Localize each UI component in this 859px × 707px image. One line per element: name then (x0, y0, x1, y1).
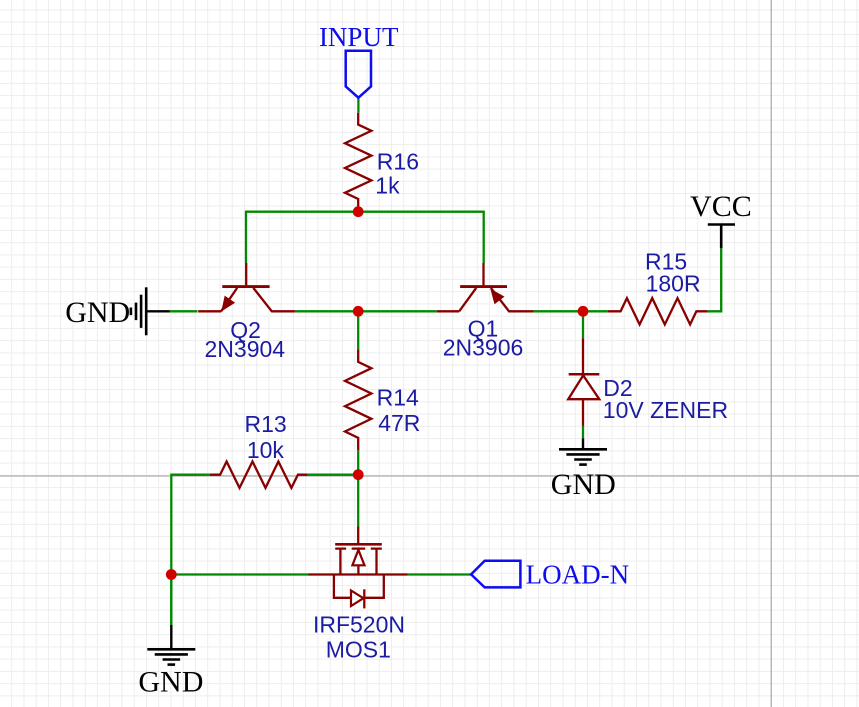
resistor R13 (210, 462, 308, 488)
wire (171, 475, 210, 625)
svg-text:2N3906: 2N3906 (443, 334, 524, 360)
svg-text:VCC: VCC (690, 190, 752, 223)
svg-text:LOAD-N: LOAD-N (526, 560, 629, 590)
wire (483, 211, 485, 263)
wire (582, 426, 584, 438)
resistor R15 (608, 298, 708, 324)
wire (171, 573, 308, 575)
svg-text:R16: R16 (377, 149, 419, 175)
svg-text:GND: GND (551, 468, 616, 501)
svg-text:GND: GND (65, 296, 130, 329)
svg-text:MOS1: MOS1 (326, 637, 391, 663)
svg-text:180R: 180R (646, 271, 701, 297)
svg-text:IRF520N: IRF520N (313, 612, 405, 638)
svg-text:R13: R13 (244, 411, 286, 437)
svg-text:R14: R14 (377, 385, 419, 411)
resistor R14 (345, 349, 371, 450)
wire (246, 211, 484, 213)
wire (170, 575, 172, 626)
port INPUT (346, 51, 371, 98)
node junction (353, 206, 364, 217)
port LOAD-N (471, 561, 520, 588)
ground (146, 310, 170, 312)
wire (295, 310, 437, 312)
node junction (166, 569, 177, 580)
wire (357, 450, 359, 475)
node junction (578, 306, 589, 317)
transistor Q2 (245, 263, 247, 285)
svg-text:47R: 47R (378, 410, 420, 436)
wire (408, 573, 472, 575)
wire (708, 248, 722, 311)
transistor MOS1 IRF520N (357, 527, 359, 544)
svg-text:10k: 10k (247, 437, 285, 463)
wire (534, 310, 608, 312)
svg-text:1k: 1k (375, 173, 400, 199)
svg-text:10V ZENER: 10V ZENER (603, 397, 728, 423)
node junction (353, 469, 364, 480)
wire (245, 211, 247, 263)
svg-text:GND: GND (138, 666, 203, 699)
ground (170, 625, 172, 649)
wire (357, 98, 359, 113)
resistor R16 (345, 113, 371, 212)
diode D2 (582, 338, 584, 374)
svg-text:INPUT: INPUT (319, 22, 399, 52)
power flag VCC (708, 225, 735, 249)
transistor Q1 (482, 263, 484, 285)
wire (308, 474, 358, 476)
node junction (353, 306, 364, 317)
ground (582, 438, 584, 449)
svg-text:2N3904: 2N3904 (205, 336, 286, 362)
wire (582, 311, 584, 338)
wire (170, 310, 198, 312)
wire (357, 311, 359, 349)
wire (357, 475, 359, 527)
